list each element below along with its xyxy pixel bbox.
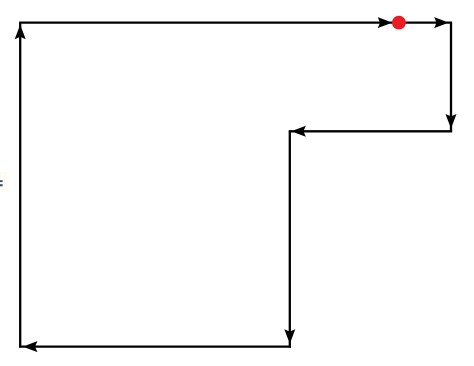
node: red dot on top edge (392, 16, 406, 30)
stray clipped glyph at left edge (0, 172, 7, 190)
arrowhead up at top-left (15, 25, 26, 40)
wire middle vertical (inner corner down to bottom) (289, 131, 291, 347)
arrowhead right at top-right corner (434, 17, 449, 28)
wire right vertical (top-right corner down) (450, 23, 452, 133)
arrowhead down on middle vertical (284, 329, 295, 344)
wire bottom horizontal (middle bottom corner to bottom-left, leftward) (19, 345, 291, 347)
arrowhead left on middle horizontal (291, 126, 306, 137)
wire middle horizontal (right corner to inner corner, leftward) (289, 130, 452, 132)
arrowhead right before red node (378, 17, 393, 28)
wire left vertical (bottom-left corner up to top-left corner) (19, 23, 21, 347)
arrowhead left at bottom-left corner (23, 341, 38, 352)
arrowhead down on right vertical (446, 114, 457, 129)
wire top horizontal (top-left corner to top-right corner) (19, 21, 452, 23)
